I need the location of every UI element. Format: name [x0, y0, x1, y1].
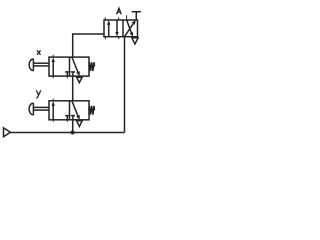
label x: [37, 50, 41, 55]
label A: [117, 8, 122, 14]
valve x left box: blocked port T: [65, 71, 69, 73]
compressed air source: [4, 128, 11, 137]
valve A left box: down-flow arrow: [116, 20, 118, 33]
valve A body (two-position box): [104, 20, 138, 37]
valve A port stub (bottom left box, port 3): [118, 37, 120, 40]
wire: valve y supply drop to bus: [72, 120, 74, 133]
valve y port stub (bottom left): [52, 120, 54, 122]
node: junction dot on bus below valve y: [70, 130, 74, 134]
valve A left box: up-flow arrow: [108, 24, 110, 37]
valve A vent T symbol: [135, 12, 137, 20]
valve x return spring: [89, 62, 95, 71]
valve x port stub (top, above arrow): [52, 55, 54, 57]
wire: pilot line from valve x output up-left to valve A: [73, 34, 104, 57]
valve x body: [49, 57, 89, 76]
valve x right box: diagonal exhaust passage with arrow: [72, 57, 78, 73]
valve y port stub (bottom, below blocked T): [66, 120, 68, 122]
valve A port stub (bottom left box, port 1): [104, 37, 106, 40]
valve A exhaust triangle: [132, 38, 138, 44]
valve y port stub (top, above arrow): [52, 99, 54, 101]
valve y right box: diagonal exhaust passage with arrow: [72, 101, 78, 117]
valve y return spring: [89, 106, 95, 115]
valve A port stub (top right box): [126, 15, 128, 20]
valve x right box: blocked supply T: [71, 71, 75, 73]
valve x pushbutton actuator: [32, 59, 34, 71]
valve x port stub (bottom left): [52, 76, 54, 78]
valve y left box: blocked port T: [65, 115, 69, 117]
wire: valve x supply to valve y output (series link): [72, 76, 74, 101]
wire: supply bus from source to right riser: [10, 132, 124, 134]
label y: [36, 90, 41, 98]
valve x exhaust triangle: [77, 77, 83, 82]
valve x left box: up-flow arrow: [52, 61, 54, 76]
valve y body: [49, 101, 89, 120]
valve y right box: blocked supply T: [71, 115, 75, 117]
valve y exhaust triangle: [77, 121, 83, 127]
valve A port stub (top left box, port 2): [118, 17, 120, 20]
valve A right box: crossed passage to exhaust (arrow down): [127, 20, 132, 34]
wire: riser from bus up to valve A bottom port: [124, 37, 126, 133]
valve A port stub (top left box, port 4): [104, 17, 106, 20]
valve y left box: up-flow arrow: [52, 105, 54, 120]
valve A right box: crossed passage to vent (arrow up): [124, 22, 134, 36]
valve x port stub (bottom, below blocked T): [66, 76, 68, 78]
valve y pushbutton actuator: [32, 103, 34, 115]
